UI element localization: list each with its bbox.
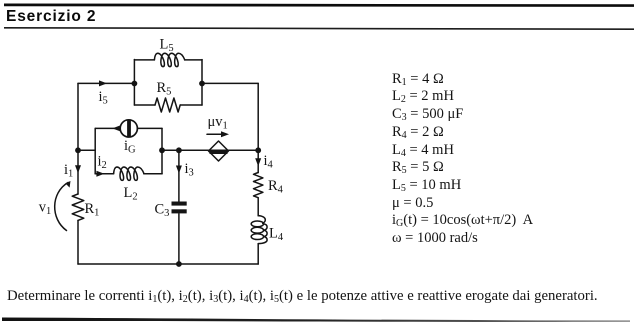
svg-text:L2: L2 [124,185,138,203]
svg-text:R1: R1 [85,201,100,219]
svg-text:C3: C3 [155,202,170,220]
svg-text:L5: L5 [160,37,174,55]
svg-text:i2: i2 [98,154,107,172]
svg-text:μv1: μv1 [208,114,228,132]
svg-text:i1: i1 [64,162,73,180]
svg-text:R4: R4 [268,178,284,196]
svg-text:L4: L4 [269,226,284,244]
svg-text:iG: iG [124,138,136,156]
svg-text:R5: R5 [157,80,172,98]
svg-text:v1: v1 [39,200,52,218]
svg-text:i5: i5 [99,89,108,107]
svg-text:i4: i4 [264,153,274,171]
svg-text:i3: i3 [185,161,194,179]
